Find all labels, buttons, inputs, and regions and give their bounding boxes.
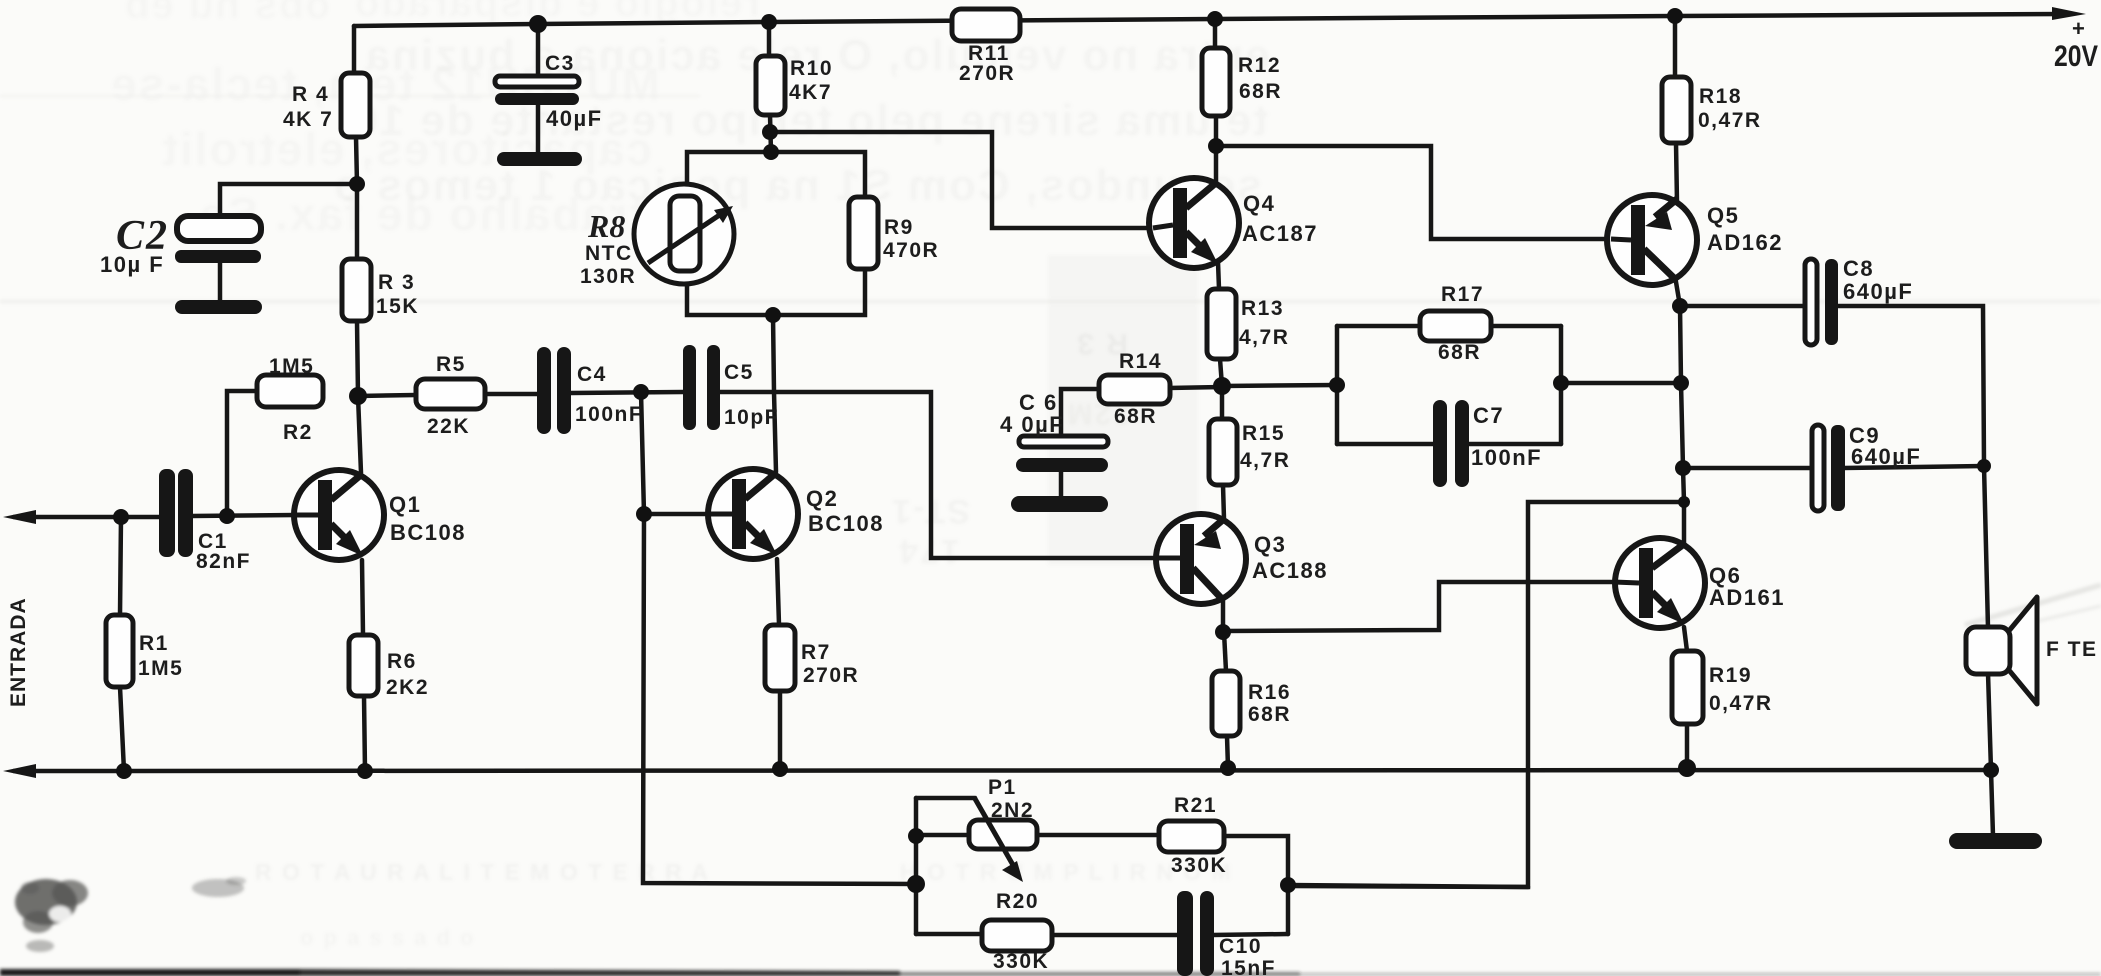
wire NTC R8/R9 box outline xyxy=(687,152,865,197)
resistor R1 xyxy=(106,615,133,687)
svg-text:R10: R10 xyxy=(790,57,833,80)
wire output column to speaker xyxy=(1984,466,1988,628)
node rail R19 xyxy=(1678,759,1696,777)
smudge bottom left xyxy=(15,877,246,933)
node trunk C9 xyxy=(1675,460,1691,476)
wire Q4 base step xyxy=(770,132,1153,228)
resistor R16 xyxy=(1212,671,1240,736)
node trunk R17C7 xyxy=(1673,375,1689,391)
svg-text:20V: 20V xyxy=(2054,40,2098,73)
capacitor C7 xyxy=(1433,400,1469,487)
resistor R14 xyxy=(1099,375,1170,404)
wire C1 right to Q1 base xyxy=(191,515,296,516)
svg-text:R12: R12 xyxy=(1238,54,1281,77)
wire network right mid out xyxy=(1288,885,1528,887)
svg-text:15K: 15K xyxy=(376,295,419,318)
ground main xyxy=(1949,833,2042,849)
svg-text:Q5: Q5 xyxy=(1707,203,1739,228)
node rail R16 xyxy=(1220,760,1236,776)
svg-text:C4: C4 xyxy=(577,363,607,386)
wire top supply rail 20V xyxy=(354,14,2066,26)
resistor R17 xyxy=(1420,311,1491,341)
resistor R19 xyxy=(1672,651,1703,724)
transistor Q1 BC108 xyxy=(294,470,384,560)
svg-text:R21: R21 xyxy=(1174,794,1217,817)
wire node A1 to R5 xyxy=(358,395,416,396)
resistor R21 xyxy=(1159,821,1224,852)
wire P1 to R21 xyxy=(1035,833,1161,838)
resistor R18 xyxy=(1662,77,1691,143)
wire R7 bottom to rail xyxy=(778,691,783,769)
wire node to R16 xyxy=(1224,632,1226,671)
wire R1 bottom to rail xyxy=(120,687,124,771)
wire R10 bottom to NTC box top xyxy=(770,115,771,152)
svg-text:270R: 270R xyxy=(959,62,1015,85)
wire R15 to Q3 emitter xyxy=(1223,485,1224,519)
svg-text:130R: 130R xyxy=(580,265,636,288)
faint scratch right side xyxy=(1965,585,2101,625)
svg-text:330K: 330K xyxy=(993,950,1049,973)
node C4/C5/Q2 base column xyxy=(633,384,649,400)
wire Q4 collector up xyxy=(1214,146,1219,182)
svg-text:68R: 68R xyxy=(1248,703,1291,726)
wire R16 bottom to rail xyxy=(1227,736,1228,768)
node C1/R2 column xyxy=(219,508,235,524)
light paper bands xyxy=(0,300,2101,303)
transistor Q3 AC188 xyxy=(1156,514,1246,604)
svg-text:10µ F: 10µ F xyxy=(100,252,164,277)
node network left P1 xyxy=(908,828,924,844)
node R10 bottom step xyxy=(762,124,778,140)
resistor R12 xyxy=(1202,48,1230,116)
svg-text:P1: P1 xyxy=(988,776,1017,799)
node NTC box top xyxy=(763,144,779,160)
svg-text:1M5: 1M5 xyxy=(138,657,183,680)
node R17C7 block out xyxy=(1553,375,1569,391)
node R13/R15/R14 xyxy=(1213,377,1231,395)
svg-text:AC188: AC188 xyxy=(1252,558,1328,583)
svg-text:Q1: Q1 xyxy=(389,492,421,517)
wire C3 drop from rail xyxy=(536,24,541,77)
node rail R10 xyxy=(761,14,777,30)
node network right mid xyxy=(1280,877,1296,893)
wire Q1 emitter to R6 xyxy=(362,560,363,635)
transistor Q2 BC108 xyxy=(708,469,798,559)
svg-text:R18: R18 xyxy=(1699,85,1742,108)
wire R13 bottom to node xyxy=(1220,359,1222,386)
wire R4 top drop xyxy=(352,26,357,73)
wire R17C7 block top side xyxy=(1337,324,1422,329)
svg-text:470R: 470R xyxy=(883,239,939,262)
wire node to C2 branch xyxy=(220,184,357,217)
wire C4C5 node down through Q2 base to feedback network xyxy=(641,392,916,884)
wire R3 bottom to node A1 xyxy=(357,321,358,396)
svg-text:2K2: 2K2 xyxy=(386,676,429,699)
wire C4 to C5 segment with node xyxy=(571,392,683,393)
wire Q6 emitter to R19 xyxy=(1684,627,1687,651)
svg-text:4K 7: 4K 7 xyxy=(283,108,333,131)
wire box bottom to Q2 collector xyxy=(773,315,776,472)
resistor R13 xyxy=(1207,289,1236,359)
capacitor C5 xyxy=(683,345,720,430)
svg-text:330K: 330K xyxy=(1171,854,1227,877)
node A1 R3/R2/R5 xyxy=(349,387,367,405)
node R4/R3/C2 xyxy=(349,176,365,192)
svg-text:AD162: AD162 xyxy=(1707,230,1783,255)
node rail R18 xyxy=(1667,8,1683,24)
wire R20 left lead xyxy=(916,932,984,937)
wire step from R12 node to Q5 base xyxy=(1216,146,1611,239)
wire C9 branch left segment xyxy=(1683,466,1815,471)
capacitor C2 electrolytic xyxy=(175,216,261,263)
resistor R11 xyxy=(952,9,1020,41)
wire R4 to R3 through node xyxy=(356,137,357,259)
wire R10 drop from rail xyxy=(767,22,772,56)
svg-text:2N2: 2N2 xyxy=(991,799,1034,822)
wire R18 drop from rail xyxy=(1673,16,1678,77)
wire input line xyxy=(14,515,161,520)
svg-text:C8: C8 xyxy=(1843,256,1874,281)
svg-text:BC108: BC108 xyxy=(390,520,466,545)
speaker FTE xyxy=(1966,597,2037,704)
svg-text:100nF: 100nF xyxy=(1471,445,1542,470)
wire R2 left to Q1 base column xyxy=(227,391,257,516)
wire Q3 base jog from C5 xyxy=(719,392,1158,558)
wire R1 drop xyxy=(120,517,121,615)
svg-text:+: + xyxy=(2072,16,2086,41)
wire C8 right to output column xyxy=(1836,306,1984,466)
capacitor C3 electrolytic xyxy=(495,76,579,105)
svg-text:Q4: Q4 xyxy=(1243,191,1275,216)
node rail R6 xyxy=(357,763,373,779)
svg-text:R20: R20 xyxy=(996,890,1039,913)
svg-text:C5: C5 xyxy=(724,361,754,384)
svg-text:R17: R17 xyxy=(1441,283,1484,306)
wire C10 to network right edge xyxy=(1212,934,1288,935)
svg-text:0,47R: 0,47R xyxy=(1698,109,1762,132)
arrow supply rail right xyxy=(2052,7,2086,20)
svg-text:R8: R8 xyxy=(587,208,625,244)
wire R17C7 block left edge xyxy=(1335,326,1340,444)
resistor R9 xyxy=(849,197,878,269)
wire Q2 base lead xyxy=(644,512,711,517)
node rail R12 xyxy=(1207,11,1223,27)
capacitor C10 xyxy=(1177,891,1214,976)
svg-text:ENTRADA: ENTRADA xyxy=(7,597,30,707)
svg-text:NTC: NTC xyxy=(585,242,633,265)
svg-text:Q3: Q3 xyxy=(1254,532,1286,557)
svg-text:1M5: 1M5 xyxy=(269,355,314,378)
wire Q6 base step from Q3 collector node xyxy=(1223,582,1614,631)
resistor R4 xyxy=(341,73,370,137)
svg-text:R19: R19 xyxy=(1709,664,1752,687)
svg-text:4 0µF: 4 0µF xyxy=(1000,412,1064,437)
potentiometer P1 xyxy=(969,797,1037,882)
svg-text:4,7R: 4,7R xyxy=(1239,326,1289,349)
capacitor C8 electrolytic xyxy=(1805,259,1838,345)
wire Q2 emitter to R7 xyxy=(777,559,779,625)
svg-text:0,47R: 0,47R xyxy=(1709,692,1773,715)
bottom page edge dark line xyxy=(0,969,300,976)
ground below C3 xyxy=(497,152,582,166)
svg-text:obs nu eb: obs nu eb xyxy=(123,0,330,27)
wire R17C7 block bottom side xyxy=(1337,442,1435,447)
svg-text:R 4: R 4 xyxy=(292,83,329,106)
svg-text:trabalho de fax. Se: trabalho de fax. Se xyxy=(198,188,645,240)
wire feedback network left edge xyxy=(914,798,919,934)
node rail C3 xyxy=(529,15,547,33)
thermistor R8 NTC xyxy=(634,184,734,284)
node rail R7 xyxy=(772,761,788,777)
wire node A1 down to Q1 collector xyxy=(358,396,361,473)
ground below C6 xyxy=(1011,496,1108,512)
svg-text:R16: R16 xyxy=(1248,681,1291,704)
node R12 bottom step xyxy=(1208,138,1224,154)
svg-text:R9: R9 xyxy=(884,216,914,239)
svg-text:68R: 68R xyxy=(1438,341,1481,364)
svg-text:R7: R7 xyxy=(801,641,831,664)
svg-text:AD161: AD161 xyxy=(1709,585,1785,610)
wire C2 stem to ground xyxy=(218,262,223,301)
wire R18 to Q5 emitter xyxy=(1676,143,1677,203)
node rail R1 xyxy=(116,763,132,779)
svg-text:R15: R15 xyxy=(1242,422,1285,445)
svg-text:15nF: 15nF xyxy=(1221,957,1276,976)
node C9 right column xyxy=(1977,459,1991,473)
wire P1 left lead xyxy=(916,833,971,838)
resistor R5 xyxy=(416,379,485,409)
wire R20 to C10 xyxy=(1050,933,1179,938)
resistor R15 xyxy=(1209,419,1237,485)
wire feedback takeoff from trunk xyxy=(1290,502,1684,887)
wire R12 drop from rail xyxy=(1213,19,1218,48)
wire R14 node segment xyxy=(1168,387,1222,388)
capacitor C4 xyxy=(537,347,571,434)
wire C9 right segment xyxy=(1843,466,1984,468)
wire bottom rail xyxy=(14,770,1991,771)
svg-text:270R: 270R xyxy=(803,664,859,687)
arrow input line left xyxy=(3,510,36,524)
resistor R7 xyxy=(765,625,795,691)
wire Q4 emitter to R13 xyxy=(1218,262,1219,289)
capacitor C1 xyxy=(159,469,193,557)
svg-text:Q2: Q2 xyxy=(806,486,838,511)
node rail speaker xyxy=(1983,762,1999,778)
wire node to R15 xyxy=(1220,386,1225,419)
node Q3 collector xyxy=(1215,624,1231,640)
wire R17C7 block right edge xyxy=(1559,326,1564,444)
svg-text:640µF: 640µF xyxy=(1851,444,1921,469)
svg-text:BC108: BC108 xyxy=(808,511,884,536)
svg-text:R5: R5 xyxy=(436,353,466,376)
svg-text:C3: C3 xyxy=(545,52,575,75)
svg-text:R13: R13 xyxy=(1241,297,1284,320)
transistor Q6 AD161 xyxy=(1614,538,1705,628)
wire C3 stem to ground xyxy=(536,104,541,154)
resistor R3 xyxy=(342,259,371,321)
node input R1 xyxy=(113,509,129,525)
transistor Q4 AC187 xyxy=(1149,178,1239,268)
wire R17C7 output to trunk xyxy=(1561,381,1681,386)
svg-text:68R: 68R xyxy=(1239,80,1282,103)
resistor R2 1M5 xyxy=(257,375,323,407)
svg-text:F TE: F TE xyxy=(2046,638,2098,661)
svg-text:R6: R6 xyxy=(387,650,417,673)
svg-text:4,7R: 4,7R xyxy=(1240,449,1290,472)
node trunk feedback xyxy=(1678,496,1690,508)
svg-text:o p a s s a d o: o p a s s a d o xyxy=(300,925,475,950)
svg-text:R2: R2 xyxy=(283,421,313,444)
wire R6 bottom to rail xyxy=(364,696,365,771)
svg-text:174: 174 xyxy=(897,532,960,570)
wire C8 branch left segment xyxy=(1680,304,1808,309)
capacitor C9 electrolytic xyxy=(1812,425,1845,511)
wire Q5 collector trunk down to Q6 collector xyxy=(1675,276,1684,545)
resistor R20 xyxy=(982,920,1052,951)
svg-text:C10: C10 xyxy=(1219,935,1262,958)
svg-text:82nF: 82nF xyxy=(196,550,251,573)
wire network top corner to P1 wiper xyxy=(916,796,975,801)
node NTC box bottom xyxy=(765,307,781,323)
wire Q3 collector down to node xyxy=(1221,600,1226,632)
svg-text:R 3: R 3 xyxy=(378,271,415,294)
svg-text:40µF: 40µF xyxy=(546,106,603,131)
node network left mid xyxy=(907,875,925,893)
resistor R10 xyxy=(756,56,785,115)
resistor R6 xyxy=(349,635,378,696)
wire R5 to C4 xyxy=(485,392,539,397)
arrow bottom rail left xyxy=(3,764,36,778)
wire node to R17C7 block xyxy=(1222,385,1337,386)
svg-text:AC187: AC187 xyxy=(1242,221,1318,246)
svg-text:100nF: 100nF xyxy=(575,403,643,426)
svg-text:4K7: 4K7 xyxy=(789,81,832,104)
wire R21 to network right edge xyxy=(1222,836,1288,934)
capacitor C6 electrolytic xyxy=(1016,436,1108,472)
ground below C2 xyxy=(175,300,262,314)
svg-text:10pF: 10pF xyxy=(724,406,779,429)
wire R12 bottom to node xyxy=(1214,116,1219,146)
svg-text:640µF: 640µF xyxy=(1843,279,1913,304)
wire speaker to bottom rail and ground xyxy=(1988,673,1993,836)
wire R14 left to C6 xyxy=(1061,389,1101,437)
transistor Q5 AD162 xyxy=(1607,195,1697,285)
svg-text:R14: R14 xyxy=(1119,350,1162,373)
svg-text:C7: C7 xyxy=(1473,403,1504,428)
node Q2 base xyxy=(636,506,652,522)
node R17C7 block in xyxy=(1329,377,1345,393)
svg-text:22K: 22K xyxy=(427,415,470,438)
wire R19 bottom to rail xyxy=(1685,724,1690,768)
svg-text:R1: R1 xyxy=(139,632,169,655)
svg-text:68R: 68R xyxy=(1114,405,1157,428)
node trunk C8 xyxy=(1672,298,1688,314)
wire C6 stem to ground xyxy=(1059,471,1064,496)
